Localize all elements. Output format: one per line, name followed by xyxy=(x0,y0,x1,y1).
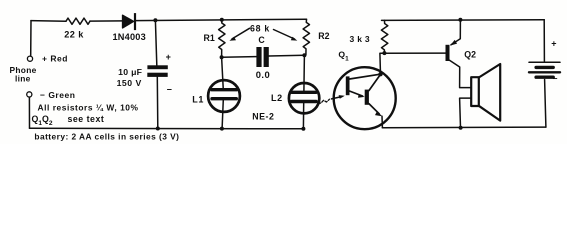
wire battery bottom lead xyxy=(545,80,546,128)
wire battery top lead xyxy=(543,20,545,62)
wire R2 to L2 xyxy=(303,55,306,91)
wire green terminal lead xyxy=(28,97,30,128)
node R2 bottom xyxy=(302,53,306,57)
Q1 T1 emitter xyxy=(349,91,362,96)
wire L2 bottom lead xyxy=(302,103,304,129)
wire bottom rail right xyxy=(382,126,546,129)
svg-text:line: line xyxy=(15,74,31,84)
wire speaker bottom lead xyxy=(460,98,471,128)
svg-text:R2: R2 xyxy=(318,31,329,41)
Q1 base bar 2 xyxy=(365,90,369,105)
Q1 T2 emitter xyxy=(369,104,379,114)
wire top rail left section xyxy=(31,20,66,23)
wire bottom rail left xyxy=(30,127,304,130)
resistor R2 xyxy=(303,19,309,55)
L2 electrode bottom xyxy=(292,100,317,103)
Q2 emitter lead xyxy=(451,20,460,45)
L2 electrode top xyxy=(292,91,317,94)
wire cap C to R2 node xyxy=(269,54,305,57)
capacitor C plates xyxy=(256,47,261,67)
wire Q1 collector riser xyxy=(380,53,446,74)
svg-text:+: + xyxy=(551,39,556,49)
terminal + Red xyxy=(27,56,32,61)
svg-text:−: − xyxy=(167,85,172,95)
svg-text:L1: L1 xyxy=(192,94,204,104)
transistor Q2 base bar xyxy=(446,45,450,61)
wire cap C1 top lead xyxy=(155,20,156,65)
node after diode xyxy=(153,18,157,22)
wire cap C1 bottom lead xyxy=(156,77,159,129)
transistor Q1 envelope xyxy=(334,67,396,129)
68k arrow to R2 xyxy=(274,30,295,40)
wire Q1 emitter to rail xyxy=(381,116,383,128)
svg-text:All resistors ¼ W, 10%: All resistors ¼ W, 10% xyxy=(38,103,139,113)
speaker cone xyxy=(479,64,500,121)
svg-text:L2: L2 xyxy=(271,93,283,103)
svg-text:+ Red: + Red xyxy=(42,54,68,64)
node Q1 collector xyxy=(378,72,382,76)
svg-text:22 k: 22 k xyxy=(64,29,84,39)
Q1 T1 collector xyxy=(350,74,380,79)
Q1 T2 collector xyxy=(369,75,380,91)
svg-text:68 k: 68 k xyxy=(250,24,270,34)
wire L1 bottom lead xyxy=(222,100,223,129)
node R1 top xyxy=(220,18,224,22)
neon lamp L1 envelope xyxy=(208,80,240,112)
wire left vertical from Red terminal to top rail xyxy=(30,21,32,56)
svg-text:−: − xyxy=(553,74,558,84)
svg-text:10 μF: 10 μF xyxy=(118,67,142,77)
svg-text:+: + xyxy=(166,52,171,62)
node 3k3 bottom xyxy=(382,51,386,55)
wire R1 to L1 xyxy=(222,57,224,88)
capacitor C1 10uF plates xyxy=(147,65,167,69)
light arrow into Q1 base xyxy=(332,97,342,99)
node cap bottom xyxy=(156,127,160,131)
svg-text:Q2: Q2 xyxy=(464,49,476,59)
svg-text:0.0: 0.0 xyxy=(256,69,271,80)
node L2 bottom xyxy=(301,127,305,131)
svg-text:− Green: − Green xyxy=(40,90,75,100)
diode D1 1N4003 xyxy=(123,15,134,28)
terminal - Green xyxy=(27,92,32,97)
node R1 bottom xyxy=(220,55,224,59)
battery B1 plates xyxy=(529,61,560,63)
svg-text:1N4003: 1N4003 xyxy=(113,32,146,42)
Q2 collector lead xyxy=(450,60,471,87)
light coupling dashes xyxy=(318,99,330,103)
node Q2 emitter top xyxy=(458,18,462,22)
68k arrow to R1 xyxy=(232,28,250,39)
node L1 bottom xyxy=(220,127,224,131)
wire 22k to diode xyxy=(90,20,123,22)
svg-text:C: C xyxy=(258,35,265,45)
resistor 3k3 xyxy=(381,20,387,53)
svg-text:NE-2: NE-2 xyxy=(252,111,274,121)
L1 electrode top xyxy=(212,88,236,91)
svg-text:battery: 2 AA cells in series: battery: 2 AA cells in series (3 V) xyxy=(34,131,179,141)
neon lamp L2 envelope xyxy=(289,83,319,113)
resistor 22 k xyxy=(66,18,90,24)
svg-text:R1: R1 xyxy=(204,33,215,43)
wire top rail right xyxy=(382,19,545,22)
wire diode to R2 top (rail) xyxy=(136,19,306,20)
wire R1 node to cap C xyxy=(222,56,257,59)
svg-text:150 V: 150 V xyxy=(117,78,142,88)
node speaker bottom xyxy=(459,126,463,130)
svg-text:3 k 3: 3 k 3 xyxy=(350,34,370,44)
speaker coil box xyxy=(471,77,479,106)
L1 electrode bottom xyxy=(212,97,236,100)
Q1 base bar 1 xyxy=(346,76,350,95)
resistor R1 xyxy=(219,20,225,57)
